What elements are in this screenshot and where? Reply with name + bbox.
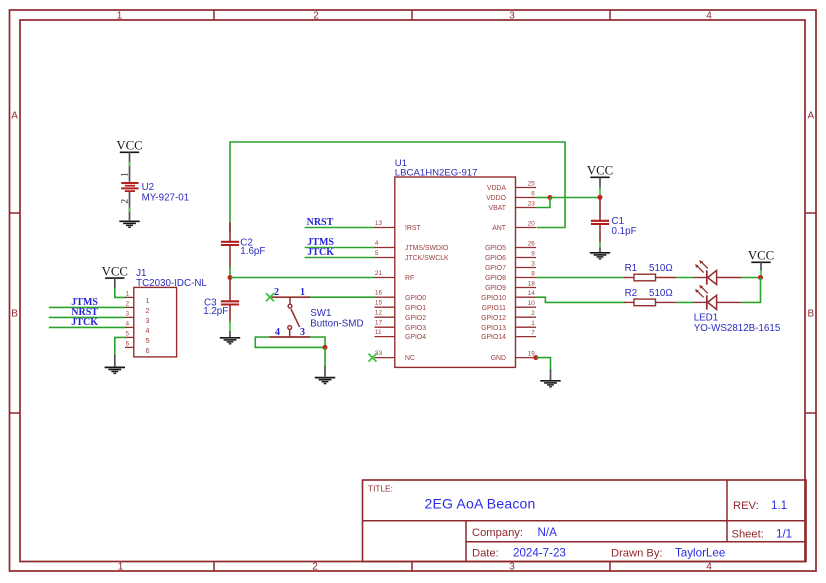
ground (J1 branch)	[105, 367, 125, 373]
U1 pin 4 (JTMS/SWDIO)	[375, 240, 449, 252]
svg-text:5: 5	[375, 250, 379, 257]
U1 pin 21 (RF)	[375, 270, 415, 282]
svg-text:GPIO6: GPIO6	[485, 255, 506, 262]
resistor R2	[624, 299, 676, 306]
svg-text:Date:: Date:	[472, 548, 499, 560]
power symbol VCC (LED branch)	[748, 249, 774, 263]
svg-text:1.2pF: 1.2pF	[203, 306, 228, 317]
svg-text:GPIO4: GPIO4	[405, 334, 426, 341]
svg-text:Sheet:: Sheet:	[732, 529, 764, 541]
svg-text:GPIO3: GPIO3	[405, 325, 426, 332]
svg-text:REV:: REV:	[733, 500, 759, 512]
svg-text:17: 17	[375, 320, 383, 327]
wire net JTMS to U1 pin 4	[305, 247, 375, 249]
frame column numbers bottom	[118, 561, 713, 572]
svg-text:2: 2	[146, 306, 150, 315]
svg-text:VCC: VCC	[116, 139, 142, 153]
svg-text:GPIO11: GPIO11	[482, 305, 507, 312]
wire U1 pin 19 GND to ground	[536, 358, 551, 380]
svg-text:2: 2	[531, 310, 535, 317]
svg-text:26: 26	[528, 240, 536, 247]
U1 pin 6 (VDDO)	[486, 190, 536, 202]
wire R2 to LED1b	[676, 301, 694, 303]
svg-text:23: 23	[528, 200, 536, 207]
wire SW1 pin 1 to U1 pin 16 (GPIO0)	[308, 296, 375, 298]
svg-text:15: 15	[375, 300, 383, 307]
svg-text:!RST: !RST	[405, 225, 421, 232]
svg-text:JTCK/SWCLK: JTCK/SWCLK	[405, 255, 449, 262]
svg-text:1: 1	[146, 296, 150, 305]
wire LED1b to VCC node	[742, 278, 761, 303]
svg-text:JTMS/SWDIO: JTMS/SWDIO	[405, 245, 449, 252]
ground (C3 branch)	[220, 338, 240, 344]
wire VCC to J1 pin 1	[115, 278, 126, 297]
U1 pin 3 (GPIO7)	[485, 260, 536, 272]
wire VCC to battery U2 pin 1	[129, 152, 131, 182]
wire net NRST to U1 pin 13	[305, 227, 375, 229]
U1 pin 10 (GPIO11)	[482, 300, 536, 312]
svg-text:3: 3	[300, 327, 305, 338]
U1 pin 25 (VDDA)	[487, 180, 536, 192]
battery U2	[121, 183, 138, 191]
svg-text:7: 7	[531, 329, 535, 336]
no-connect X on U1 pin 33	[369, 354, 377, 362]
svg-text:R2: R2	[625, 288, 638, 299]
wire ANT net: C2 top up and across to U1 pin 20	[230, 142, 565, 232]
svg-text:GPIO7: GPIO7	[485, 265, 506, 272]
wire RF node to U1 pin 21	[230, 277, 375, 279]
svg-text:GPIO9: GPIO9	[485, 285, 506, 292]
power symbol VCC (J1 branch)	[102, 265, 128, 279]
svg-text:NRST: NRST	[307, 217, 334, 228]
wire net NRST to J1 pin 3	[49, 316, 125, 318]
svg-text:GPIO14: GPIO14	[481, 334, 506, 341]
wire C3 bottom to ground	[229, 321, 231, 337]
U1 pin 8 (GPIO8)	[485, 270, 536, 282]
svg-text:6: 6	[531, 190, 535, 197]
svg-text:2: 2	[313, 11, 319, 22]
svg-text:1.6pF: 1.6pF	[240, 246, 265, 257]
wire VDDO junction to VCC/C1 node	[550, 197, 600, 199]
U1 pin 7 (GPIO14)	[481, 329, 536, 341]
svg-text:MY-927-01: MY-927-01	[142, 192, 190, 203]
svg-text:N/A: N/A	[538, 526, 558, 539]
svg-text:4: 4	[706, 561, 712, 572]
svg-text:ANT: ANT	[492, 225, 507, 232]
wire junction down to U1 pin 23 VBAT	[536, 198, 550, 208]
U1 pin 12 (GPIO2)	[375, 310, 427, 322]
U1 pin 16 (GPIO0)	[375, 290, 427, 302]
wire SW1 pins 3/4 loop to ground	[255, 337, 325, 347]
svg-text:VBAT: VBAT	[489, 205, 507, 212]
wire LED1a to VCC node	[742, 277, 760, 279]
svg-text:GPIO1: GPIO1	[405, 305, 426, 312]
wire U1 pin 14 GPIO10 to R2	[536, 297, 625, 302]
svg-text:GND: GND	[491, 355, 506, 362]
ground (battery branch)	[119, 221, 139, 227]
svg-text:VCC: VCC	[748, 249, 774, 263]
wire VCC down to LED node	[760, 262, 762, 276]
svg-text:25: 25	[528, 180, 536, 187]
capacitor C2	[221, 222, 239, 268]
svg-text:R1: R1	[625, 263, 638, 274]
svg-text:VDDA: VDDA	[487, 185, 507, 192]
connector J1	[125, 287, 177, 357]
svg-text:20: 20	[528, 220, 536, 227]
svg-text:5: 5	[146, 336, 150, 345]
svg-text:2: 2	[312, 561, 318, 572]
junction VCC/C1 node	[598, 195, 603, 200]
wire C2 bottom to RF node	[229, 266, 231, 278]
svg-text:JTCK: JTCK	[307, 247, 334, 258]
svg-text:3: 3	[146, 316, 150, 325]
IC U1 body	[395, 177, 516, 367]
svg-text:TITLE:: TITLE:	[368, 484, 393, 494]
U1 pin 26 (GPIO5)	[485, 240, 536, 252]
svg-text:12: 12	[375, 310, 383, 317]
ground (C1 branch)	[590, 253, 610, 259]
U1 pin 14 (GPIO10)	[481, 290, 536, 302]
svg-text:J1: J1	[136, 268, 146, 279]
U1 pin 17 (GPIO3)	[375, 320, 427, 332]
U1 pin 9 (GPIO6)	[485, 250, 536, 262]
svg-text:VCC: VCC	[102, 265, 128, 279]
U1 pin 33 (NC)	[375, 350, 415, 362]
power symbol VCC (C1 branch)	[587, 164, 613, 178]
wire U1 pin 6 VDDO to junction	[536, 197, 550, 199]
frame column numbers top	[117, 11, 713, 22]
resistor R1	[624, 274, 676, 281]
junction U1 GND pin node	[533, 355, 538, 360]
LED LED1b (diode symbol)	[694, 285, 742, 310]
svg-text:A: A	[11, 111, 18, 122]
wire net JTCK to U1 pin 5	[305, 257, 375, 259]
svg-text:GPIO0: GPIO0	[405, 295, 426, 302]
junction LED VCC node	[758, 275, 763, 280]
LED LED1a (diode symbol)	[694, 260, 742, 285]
wire SW1 ground node down	[324, 347, 326, 376]
title block	[363, 480, 807, 562]
svg-text:NC: NC	[405, 355, 415, 362]
frame row letters	[11, 111, 814, 320]
svg-text:3: 3	[531, 260, 535, 267]
svg-text:GPIO5: GPIO5	[485, 245, 506, 252]
wire J1 pin 5 to ground	[115, 337, 126, 366]
U1 pin 19 (GND)	[491, 350, 536, 362]
U1 pin 23 (VBAT)	[489, 200, 537, 212]
svg-text:4: 4	[375, 240, 379, 247]
svg-text:LBCA1HN2EG-917: LBCA1HN2EG-917	[395, 167, 478, 178]
svg-text:510Ω: 510Ω	[649, 288, 673, 299]
svg-text:18: 18	[528, 280, 536, 287]
wire U1 pin 8 GPIO8 to R1	[536, 277, 625, 279]
pushbutton SW1	[269, 297, 310, 337]
svg-text:A: A	[807, 111, 814, 122]
svg-text:GPIO12: GPIO12	[481, 315, 506, 322]
svg-text:3: 3	[509, 11, 515, 22]
svg-text:0.1pF: 0.1pF	[612, 226, 637, 237]
svg-text:2EG AoA Beacon: 2EG AoA Beacon	[425, 496, 536, 512]
svg-text:Button-SMD: Button-SMD	[310, 318, 363, 329]
ground (U1 GND)	[540, 381, 560, 387]
wire VCC down to C1 node	[599, 177, 601, 196]
svg-text:1: 1	[117, 11, 123, 22]
svg-text:14: 14	[528, 290, 536, 297]
svg-text:B: B	[807, 309, 814, 320]
U1 pin 2 (GPIO12)	[481, 310, 536, 322]
U1 pin 15 (GPIO1)	[375, 300, 427, 312]
svg-text:510Ω: 510Ω	[649, 263, 673, 274]
svg-text:3: 3	[509, 561, 515, 572]
svg-text:10: 10	[528, 300, 536, 307]
svg-text:4: 4	[706, 11, 712, 22]
svg-text:21: 21	[375, 270, 383, 277]
wire net JTCK to J1 pin 4	[49, 326, 125, 328]
U1 pin 11 (GPIO4)	[375, 329, 427, 341]
svg-text:GPIO2: GPIO2	[405, 315, 426, 322]
svg-text:11: 11	[375, 329, 382, 336]
svg-text:GPIO8: GPIO8	[485, 275, 506, 282]
svg-text:GPIO13: GPIO13	[481, 325, 506, 332]
svg-text:1: 1	[120, 172, 130, 177]
svg-text:YO-WS2812B-1615: YO-WS2812B-1615	[694, 323, 781, 334]
svg-text:VCC: VCC	[587, 164, 613, 178]
U1 pin 20 (ANT)	[492, 220, 536, 232]
svg-text:Company:: Company:	[472, 527, 523, 539]
wire R1 to LED1a	[676, 277, 694, 279]
capacitor C1	[591, 197, 609, 244]
svg-text:8: 8	[531, 270, 535, 277]
svg-text:1: 1	[531, 320, 535, 327]
svg-text:13: 13	[375, 220, 383, 227]
U1 pin 1 (GPIO13)	[481, 320, 536, 332]
ground (SW1 branch)	[315, 378, 335, 384]
U1 pin 18 (GPIO9)	[485, 280, 536, 292]
svg-text:TC2030-IDC-NL: TC2030-IDC-NL	[136, 278, 207, 289]
svg-text:2024-7-23: 2024-7-23	[513, 547, 566, 560]
capacitor C3	[221, 278, 239, 324]
svg-text:TaylorLee: TaylorLee	[675, 547, 725, 560]
U1 pin 13 (!RST)	[375, 220, 422, 232]
wire battery U2 pin 2 to ground	[129, 192, 131, 220]
svg-text:1/1: 1/1	[776, 528, 792, 541]
svg-text:4: 4	[146, 326, 150, 335]
no-connect X on SW1 pin 2	[266, 293, 274, 301]
svg-text:1: 1	[300, 287, 305, 298]
svg-text:1: 1	[118, 561, 124, 572]
svg-text:6: 6	[146, 346, 150, 355]
svg-text:RF: RF	[405, 275, 414, 282]
junction SW1 ground node	[323, 345, 328, 350]
power symbol VCC (battery branch)	[116, 139, 142, 153]
svg-text:2: 2	[274, 287, 279, 298]
junction VDDO node	[548, 195, 553, 200]
svg-text:GPIO10: GPIO10	[481, 295, 506, 302]
svg-text:4: 4	[275, 327, 280, 338]
junction RF node	[228, 275, 233, 280]
wire C1 bottom to ground	[599, 242, 601, 253]
svg-text:VDDO: VDDO	[486, 195, 507, 202]
svg-text:B: B	[11, 309, 18, 320]
U1 pin 5 (JTCK/SWCLK)	[375, 250, 450, 262]
svg-text:JTCK: JTCK	[71, 317, 98, 328]
svg-text:9: 9	[531, 250, 535, 257]
wire net JTMS to J1 pin 2	[49, 306, 125, 308]
svg-text:1.1: 1.1	[771, 499, 787, 512]
svg-text:16: 16	[375, 290, 383, 297]
svg-text:Drawn By:: Drawn By:	[611, 548, 663, 560]
